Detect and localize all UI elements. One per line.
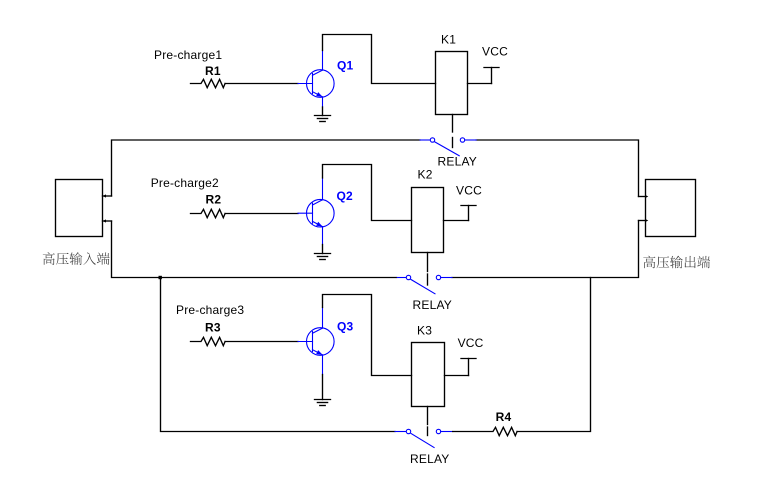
relay contact RELAY1 <box>420 138 476 156</box>
svg-text:VCC: VCC <box>456 183 482 197</box>
junction node on band bottom edge <box>159 276 162 279</box>
pin arrow output stub 1 <box>645 195 648 198</box>
svg-text:R2: R2 <box>206 193 222 207</box>
wire band bottom edge right + right edge lower <box>452 221 639 278</box>
svg-text:K3: K3 <box>417 324 432 338</box>
relay coil K2 <box>412 188 444 253</box>
resistor R1 <box>191 79 226 87</box>
wire Q3 emitter to ground <box>322 375 324 400</box>
resistor R4 <box>453 427 517 435</box>
svg-text:RELAY: RELAY <box>413 298 452 312</box>
wire R4 to right riser <box>517 278 590 432</box>
relay coil K1 <box>436 52 468 115</box>
resistor R2 <box>191 209 226 217</box>
mechanical link K2 coil to contact (dashed) <box>427 253 429 286</box>
svg-text:Q3: Q3 <box>337 320 354 334</box>
wire Q2 collector to K2 coil <box>323 165 412 221</box>
svg-text:R4: R4 <box>496 410 512 424</box>
svg-text:VCC: VCC <box>458 336 484 350</box>
wire output box stub 1 <box>639 196 646 198</box>
wire Q1 emitter to ground <box>322 107 324 116</box>
power VCC 2 <box>444 206 477 221</box>
svg-text:RELAY: RELAY <box>410 452 449 466</box>
wire band top edge right + right edge upper <box>476 140 638 197</box>
svg-text:R3: R3 <box>205 321 221 335</box>
wire R2 to Q2 base <box>225 213 298 215</box>
label 高压输出端 <box>643 256 710 269</box>
wire output box stub 2 <box>639 220 646 222</box>
wire input box stub 1 <box>103 195 112 197</box>
svg-text:RELAY: RELAY <box>438 155 477 169</box>
label 高压输入端 <box>43 252 110 265</box>
relay contact RELAY3 <box>395 429 453 447</box>
transistor Q3 (NPN) <box>298 308 334 375</box>
wire R1 to Q1 base <box>225 83 298 85</box>
pin arrow output stub 2 <box>645 219 648 222</box>
wire band bottom edge + left edge lower <box>112 221 397 278</box>
resistor R3 <box>191 337 226 345</box>
svg-text:R1: R1 <box>205 64 221 78</box>
wire Q3 collector to K3 coil <box>323 295 412 376</box>
ground G1 <box>315 116 331 122</box>
svg-text:Pre-charge2: Pre-charge2 <box>151 176 219 190</box>
svg-text:K1: K1 <box>441 33 456 47</box>
svg-text:Pre-charge3: Pre-charge3 <box>176 303 244 317</box>
power VCC 3 <box>445 359 477 376</box>
svg-text:Q1: Q1 <box>337 59 354 73</box>
terminal box output (高压输出端) <box>646 180 696 237</box>
wire R3 to Q3 base <box>225 341 298 343</box>
mechanical link K1 coil to contact (dashed) <box>452 115 454 148</box>
wire band top edge + left edge upper <box>112 140 421 196</box>
transistor Q1 (NPN) <box>298 51 334 108</box>
power VCC 1 <box>468 68 500 84</box>
transistor Q2 (NPN) <box>298 178 334 245</box>
terminal box input (高压输入端) <box>56 180 103 237</box>
wire Q1 collector to K1 coil <box>323 35 436 84</box>
ground G2 <box>315 254 331 260</box>
svg-text:Q2: Q2 <box>337 189 354 203</box>
pin arrow input stub 1 <box>103 194 106 197</box>
ground G3 <box>315 400 331 406</box>
svg-text:VCC: VCC <box>482 45 508 59</box>
pin arrow input stub 2 <box>103 219 106 222</box>
wire input box stub 2 <box>103 220 112 222</box>
svg-text:Pre-charge1: Pre-charge1 <box>154 48 222 62</box>
relay coil K3 <box>412 343 445 407</box>
relay contact RELAY2 <box>397 275 452 294</box>
wire Q2 emitter to ground <box>322 245 324 254</box>
mechanical link K3 coil to contact (dashed) <box>427 407 429 436</box>
svg-text:K2: K2 <box>418 167 433 181</box>
wire left riser and bottom run to contact 3 <box>161 278 396 432</box>
